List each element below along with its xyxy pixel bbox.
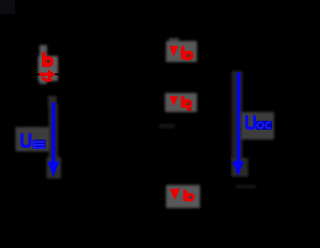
wire halo: alongside left blue arrow [49,104,59,160]
wire: black bond line crossing halo, top-left [34,73,60,75]
label Yb bottom: red triangle + b [170,189,195,202]
atom O1: red b-shaped glyph, top-left [42,52,54,67]
label Yb middle: red triangle + b [170,96,193,111]
label Uvx: blue U with subscript, left [21,133,46,149]
wire halo: left vertical wire above arrow [48,96,57,106]
label Yb top: red triangle + b [169,46,193,60]
atom O2: red arrow-like glyph below O1 [40,70,56,82]
halo: right label box [241,112,274,140]
arrow A1: left blue arrow (down) [48,103,60,178]
wire halo: right vertical wire [232,71,243,161]
label Yb top: halo [166,41,197,62]
arrow A2: right blue arrow (down) [232,73,244,177]
faint fringe below middle label [160,124,175,128]
faint artifact block top-left corner [0,0,15,14]
halo: streak above top label [169,38,179,46]
label Yb middle: halo [165,93,197,112]
halo: left label box [16,127,50,152]
halo: left arrowhead [47,157,62,179]
label Yb bottom: halo [166,185,200,208]
node A halo: jpeg halo of carbonyl line, top-left [38,45,58,84]
faint fringe below right arrowhead [236,185,256,188]
label Uvyx: blue U with subscript, right [245,115,272,130]
halo: right arrowhead [232,158,249,177]
